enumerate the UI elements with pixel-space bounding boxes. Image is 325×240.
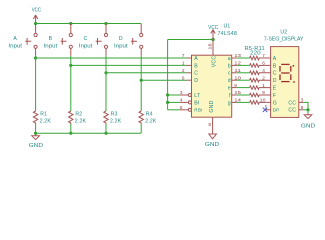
svg-text:11: 11: [234, 68, 241, 73]
wire VCC rail: [36, 23, 142, 25]
resistor R10 row f: [232, 90, 271, 97]
svg-text:C: C: [273, 71, 277, 77]
pin 8 CC stub: [299, 105, 308, 110]
VCC symbol at U1: [208, 25, 218, 40]
svg-text:c: c: [228, 71, 231, 77]
wire net C to pin 2: [106, 72, 187, 74]
pin 6 stub D: [187, 79, 192, 81]
node junction net B: [69, 64, 72, 67]
display U2 body: [271, 47, 299, 118]
svg-text:R4: R4: [146, 112, 153, 118]
wire R1 tail to bottom rail: [35, 124, 37, 133]
label C Input: [79, 36, 93, 50]
pin 7 stub A: [187, 57, 192, 59]
svg-text:A: A: [273, 56, 277, 62]
svg-text:C: C: [84, 36, 88, 42]
ground (right): [301, 110, 315, 130]
svg-text:16: 16: [207, 43, 212, 50]
svg-text:Input: Input: [44, 44, 58, 50]
svg-text:GND: GND: [209, 100, 215, 112]
svg-text:4: 4: [262, 68, 265, 73]
pin DP stub with no-connect: [263, 104, 271, 112]
pin 3 LT with bubble: [179, 90, 191, 96]
wire column 3 vertical: [105, 56, 107, 111]
svg-text:g: g: [228, 100, 231, 106]
ground at U1: [205, 134, 219, 148]
resistor R3: [104, 111, 122, 124]
wire column 2 vertical: [70, 56, 72, 111]
svg-text:G: G: [273, 100, 277, 106]
label B Input: [44, 36, 58, 50]
svg-text:Input: Input: [114, 44, 128, 50]
node junction LT: [166, 93, 169, 96]
svg-text:4: 4: [180, 98, 183, 103]
node junction VCC at U1: [211, 38, 214, 41]
svg-text:LT: LT: [194, 93, 201, 99]
node junction bottom rail col2: [69, 132, 72, 135]
switch D (pushbutton): [131, 24, 143, 56]
svg-text:A: A: [13, 36, 17, 42]
svg-text:220: 220: [250, 50, 261, 56]
svg-text:D: D: [194, 78, 198, 84]
svg-text:F: F: [273, 93, 276, 99]
svg-text:6: 6: [182, 75, 185, 80]
svg-text:e: e: [228, 86, 231, 92]
pin 8 GND stub: [208, 117, 212, 134]
resistor R9 row e: [232, 83, 271, 90]
label A Input: [8, 36, 22, 50]
resistor R4: [139, 111, 157, 124]
svg-text:E: E: [273, 86, 277, 92]
svg-text:15: 15: [234, 90, 241, 95]
svg-text:U2: U2: [280, 30, 287, 36]
svg-text:R2: R2: [75, 112, 82, 118]
svg-text:Input: Input: [79, 44, 93, 50]
node junction bottom rail col1: [34, 132, 37, 135]
svg-text:a: a: [228, 56, 231, 62]
pin 2 stub C: [187, 72, 192, 74]
svg-text:9: 9: [262, 90, 265, 95]
svg-text:D: D: [273, 78, 277, 84]
resistor R7 row c: [232, 68, 271, 75]
switch C (pushbutton): [96, 24, 108, 56]
svg-text:2.2K: 2.2K: [75, 118, 87, 124]
IC U1 74LS48 body: [192, 55, 232, 117]
svg-text:C: C: [194, 71, 198, 77]
svg-text:14: 14: [234, 98, 241, 103]
wire net D to pin 6: [141, 79, 186, 81]
resistor R8 row d: [232, 75, 271, 82]
svg-text:b: b: [228, 63, 231, 69]
node junction VCC rail col3: [104, 22, 107, 25]
wire net A to pin 7: [36, 57, 187, 59]
svg-text:A: A: [194, 56, 198, 62]
svg-text:74LS48: 74LS48: [218, 31, 238, 37]
wire column 4 vertical: [140, 56, 142, 111]
svg-text:2: 2: [262, 75, 265, 80]
svg-text:R1: R1: [40, 112, 47, 118]
wire column 1 vertical: [35, 56, 37, 111]
node junction BI: [166, 101, 169, 104]
wire RBI row: [168, 109, 180, 111]
svg-text:13: 13: [234, 53, 241, 58]
resistor R6 row b: [232, 61, 271, 68]
svg-text:10: 10: [234, 75, 241, 80]
svg-text:U1: U1: [224, 23, 231, 29]
svg-text:B: B: [273, 63, 277, 69]
svg-text:10: 10: [260, 98, 266, 103]
VCC symbol (top-left power): [32, 8, 41, 24]
svg-text:1: 1: [262, 83, 265, 88]
svg-text:6: 6: [262, 61, 265, 66]
wire bottom rail: [36, 132, 142, 134]
svg-text:7-SEG_DISPLAY: 7-SEG_DISPLAY: [264, 37, 304, 43]
svg-text:B: B: [49, 36, 53, 42]
svg-text:12: 12: [234, 61, 241, 66]
pin 1 stub B: [187, 64, 192, 66]
node junction VCC rail col2: [69, 22, 72, 25]
label D Input: [114, 36, 128, 50]
svg-text:VCC: VCC: [211, 56, 217, 68]
svg-text:BI: BI: [194, 100, 199, 106]
switch A (pushbutton): [25, 24, 37, 56]
svg-text:2.2K: 2.2K: [110, 118, 122, 124]
svg-text:2: 2: [182, 68, 185, 73]
resistor R2: [69, 111, 87, 124]
svg-text:3: 3: [301, 97, 304, 102]
svg-text:2.2K: 2.2K: [40, 118, 52, 124]
svg-text:d: d: [228, 78, 231, 84]
pin 5 RBI with bubble: [179, 105, 191, 111]
wire R3 tail to bottom rail: [105, 124, 107, 133]
svg-text:CC: CC: [288, 100, 296, 106]
node junction net A: [34, 56, 37, 59]
seven segment digit 8: [280, 64, 291, 81]
wire LT row: [168, 94, 180, 96]
svg-text:DP: DP: [273, 108, 280, 113]
svg-text:VCC: VCC: [32, 8, 41, 14]
node junction net C: [104, 71, 107, 74]
svg-text:8: 8: [208, 122, 211, 127]
svg-text:GND: GND: [205, 142, 219, 148]
resistor R11 row g: [232, 98, 271, 105]
resistor R1: [33, 111, 51, 124]
node junction VCC rail col1: [34, 22, 37, 25]
decimal point dot: [293, 81, 295, 83]
ground (left): [29, 133, 43, 149]
svg-text:5: 5: [180, 105, 183, 110]
pin 4 BI with bubble: [179, 98, 191, 104]
svg-text:B: B: [194, 63, 198, 69]
svg-text:1: 1: [182, 61, 185, 66]
node junction bottom rail col3: [104, 132, 107, 135]
wire R4 tail to bottom rail: [140, 124, 142, 133]
svg-text:CC: CC: [288, 108, 296, 114]
svg-text:9: 9: [234, 83, 237, 88]
wire R2 tail to bottom rail: [70, 124, 72, 133]
wire net B to pin 1: [71, 64, 187, 66]
svg-text:D: D: [119, 36, 123, 42]
svg-text:GND: GND: [301, 124, 315, 130]
pin 3 CC stub: [299, 97, 308, 109]
svg-text:R3: R3: [111, 112, 118, 118]
node junction CC: [306, 108, 309, 111]
svg-text:7: 7: [182, 53, 185, 58]
apostrophe dot: [293, 65, 295, 67]
wire LT BI RBI tie vertical: [167, 40, 169, 110]
svg-text:3: 3: [180, 90, 183, 95]
svg-text:2.2K: 2.2K: [145, 118, 157, 124]
pin 16 VCC stub: [207, 40, 213, 56]
svg-text:GND: GND: [29, 143, 43, 149]
wire BI row: [168, 101, 180, 103]
svg-text:Input: Input: [8, 44, 22, 50]
svg-text:8: 8: [301, 105, 304, 110]
svg-text:7: 7: [262, 53, 265, 58]
svg-text:RBI: RBI: [194, 108, 202, 113]
resistor R5 row a: [232, 53, 271, 60]
node junction net D: [140, 79, 143, 82]
wire VCC feed to U1: [168, 39, 213, 41]
switch B (pushbutton): [61, 24, 73, 56]
